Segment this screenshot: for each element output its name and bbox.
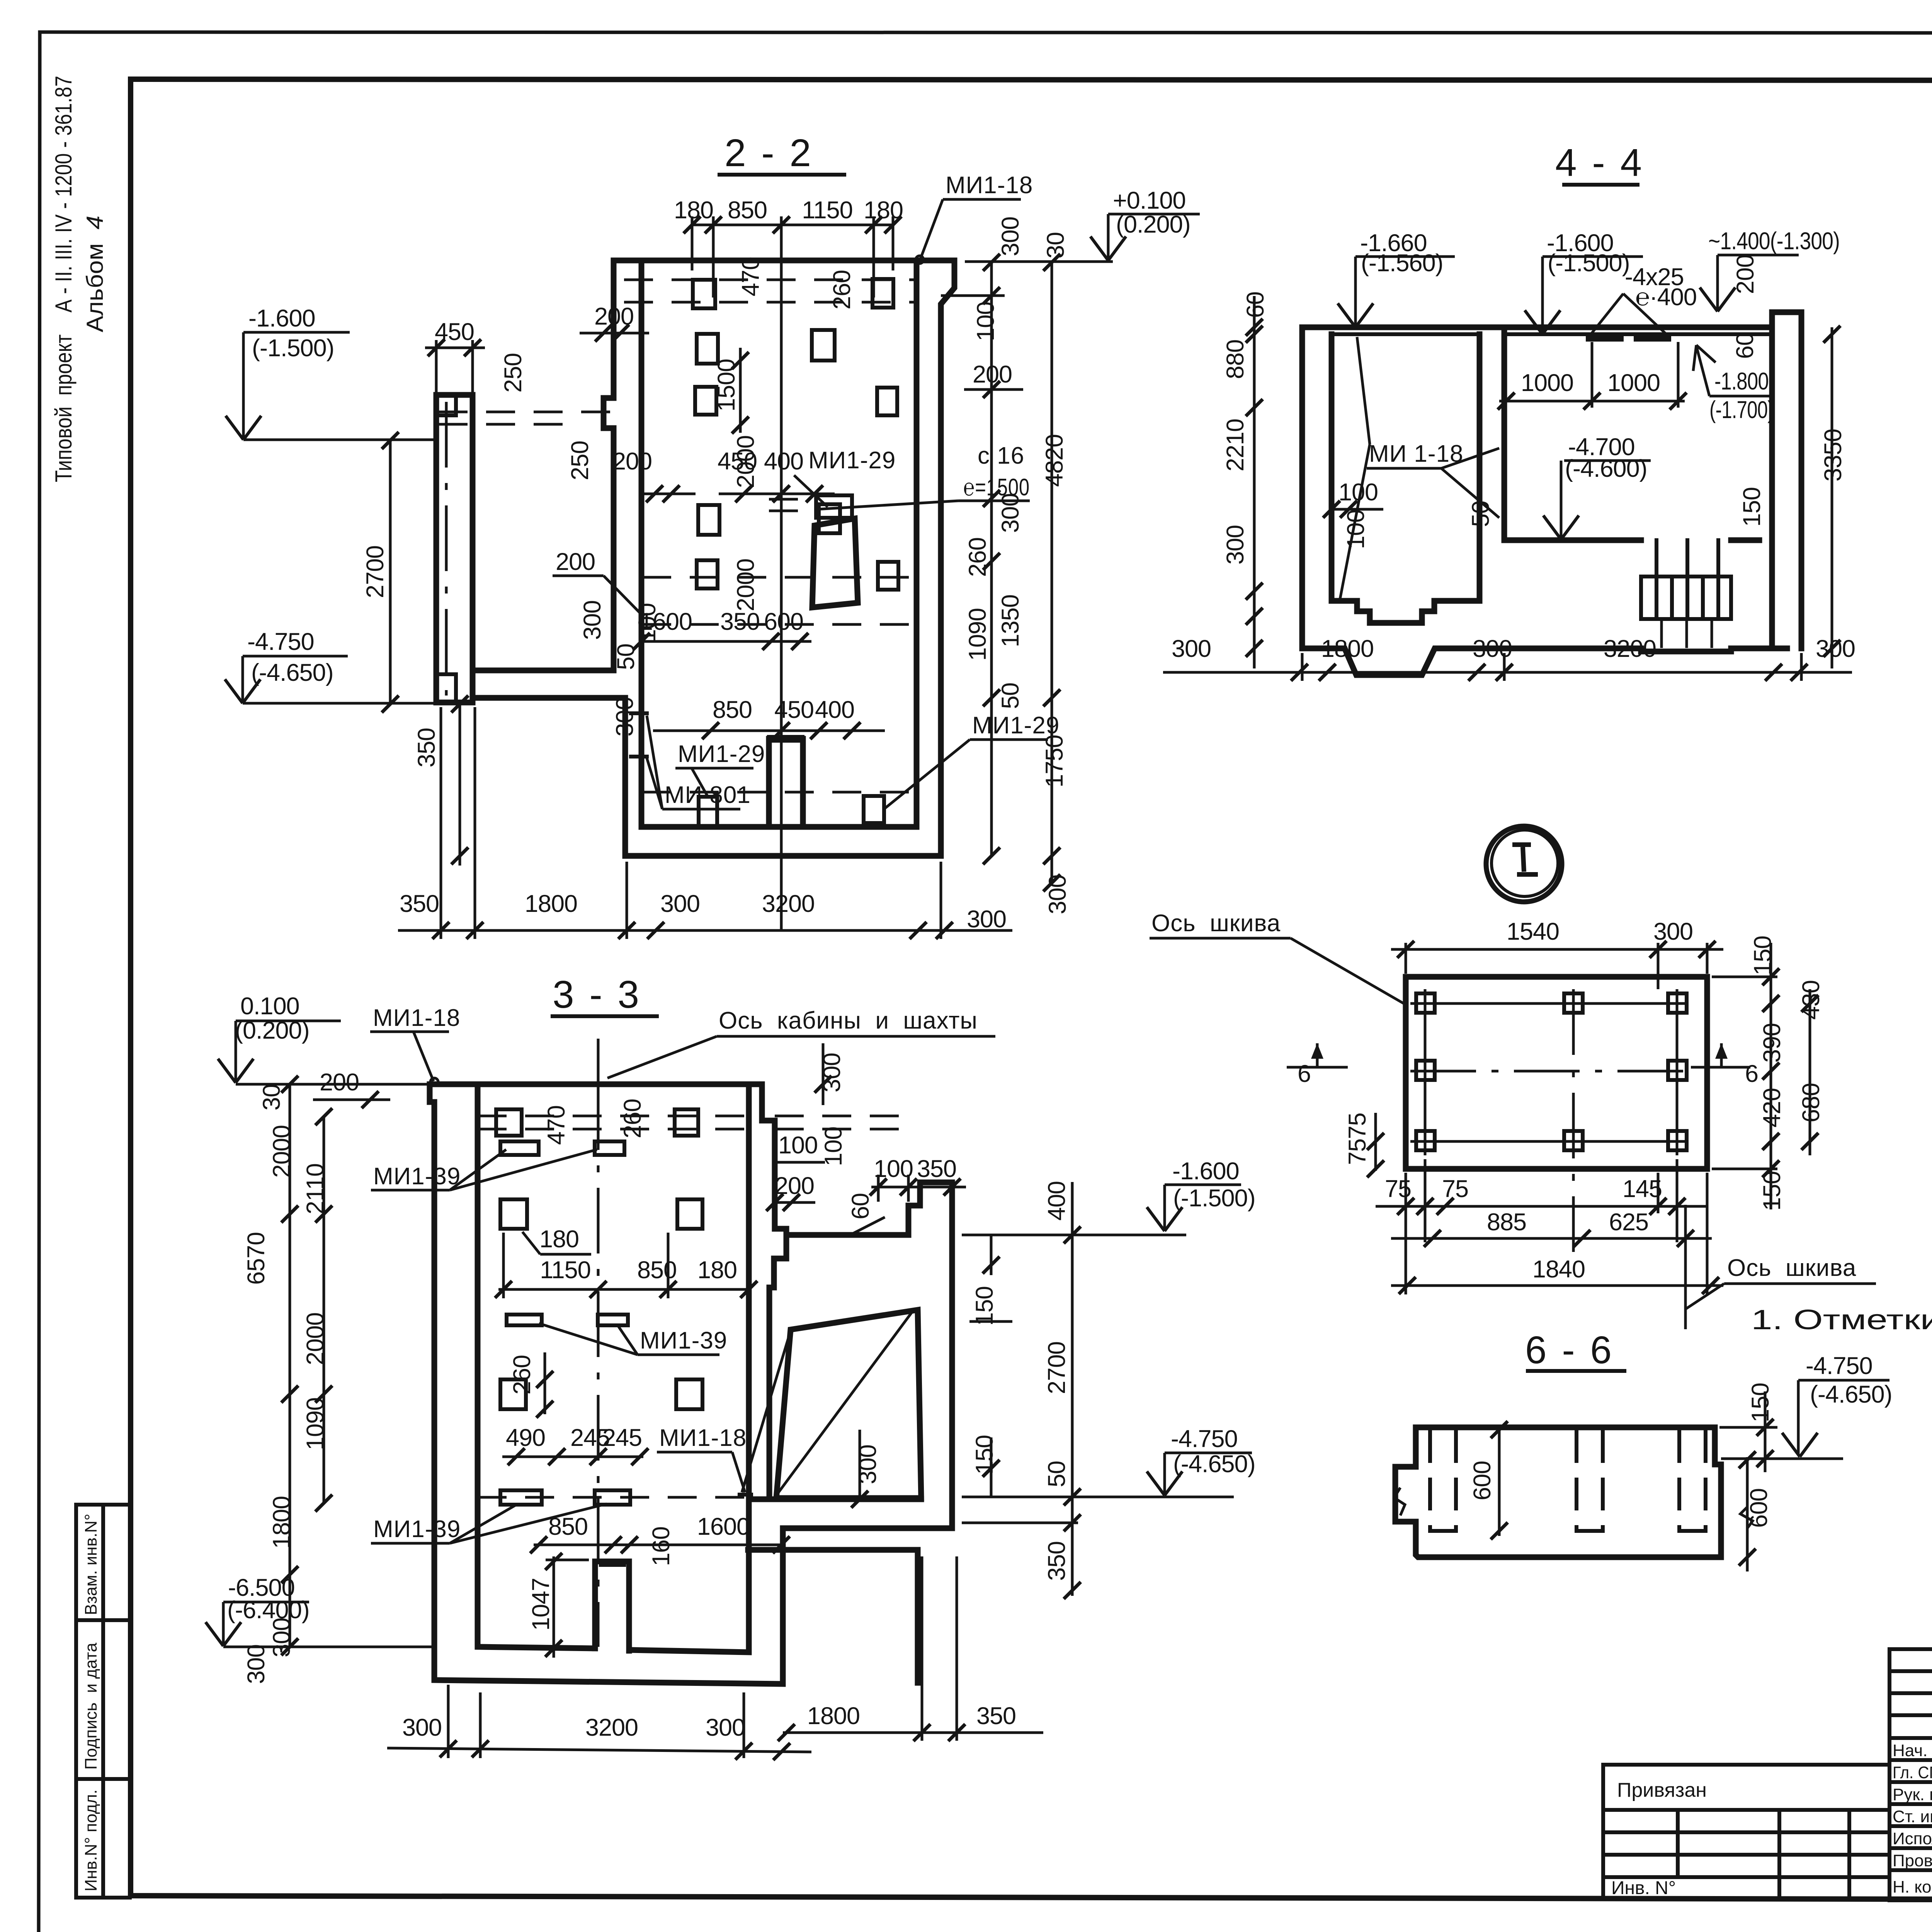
svg-text:МИ1-29: МИ1-29	[972, 712, 1060, 739]
svg-text:150: 150	[971, 1435, 998, 1475]
svg-text:300: 300	[660, 890, 700, 917]
mid dashed lines	[642, 576, 916, 579]
svg-text:60: 60	[847, 1193, 874, 1219]
svg-text:1047: 1047	[527, 1578, 554, 1631]
svg-text:1090: 1090	[302, 1398, 329, 1450]
svg-text:МИ1-39: МИ1-39	[640, 1327, 727, 1354]
svg-text:300: 300	[243, 1645, 270, 1684]
svg-text:850: 850	[637, 1257, 677, 1284]
right chain A	[941, 260, 1023, 856]
svg-text:300: 300	[402, 1714, 442, 1741]
svg-text:200: 200	[320, 1069, 359, 1096]
svg-text:300: 300	[268, 1618, 295, 1657]
svg-text:6570: 6570	[243, 1232, 270, 1285]
svg-text:850: 850	[548, 1513, 588, 1540]
svg-text:100: 100	[778, 1132, 818, 1159]
svg-text:470: 470	[543, 1105, 570, 1145]
top dimension row	[692, 216, 893, 930]
svg-text:6: 6	[1745, 1060, 1758, 1087]
svg-text:(-1.700): (-1.700)	[1709, 396, 1774, 423]
svg-text:МИ1-29: МИ1-29	[678, 741, 765, 767]
svg-text:Ст. инж.: Ст. инж.	[1893, 1807, 1932, 1826]
svg-text:1840: 1840	[1532, 1256, 1585, 1283]
right room floor	[1504, 537, 1759, 543]
pedestal 3-3	[595, 1561, 629, 1651]
comb block	[1641, 540, 1731, 619]
svg-text:3200: 3200	[762, 890, 815, 917]
plan outline	[1406, 977, 1707, 1169]
svg-text:300: 300	[997, 493, 1024, 533]
svg-text:160: 160	[648, 1527, 675, 1566]
fragment mark circle I	[1486, 826, 1562, 902]
bottom slab	[1302, 648, 1787, 675]
bottom centre pedestal	[769, 739, 803, 827]
svg-text:6 - 6: 6 - 6	[1525, 1328, 1614, 1372]
svg-text:-1.600: -1.600	[248, 305, 315, 332]
svg-text:625: 625	[1609, 1209, 1648, 1236]
svg-text:-1.600: -1.600	[1172, 1158, 1239, 1185]
svg-text:(-1.500): (-1.500)	[1548, 250, 1630, 277]
svg-text:350: 350	[400, 890, 439, 917]
svg-text:600: 600	[1745, 1488, 1772, 1528]
svg-text:145: 145	[1622, 1175, 1662, 1202]
svg-text:1600: 1600	[697, 1513, 750, 1540]
svg-text:180: 180	[674, 197, 713, 224]
svg-text:(-4.650): (-4.650)	[251, 659, 333, 686]
svg-text:3200: 3200	[1604, 635, 1656, 662]
svg-text:880: 880	[1222, 340, 1249, 379]
svg-text:~1.400(-1.300): ~1.400(-1.300)	[1708, 228, 1840, 255]
svg-text:1750: 1750	[1041, 735, 1068, 787]
svg-text:200: 200	[973, 361, 1012, 388]
svg-text:100: 100	[972, 302, 999, 341]
bottom-left vertical stamp table	[76, 1505, 130, 1898]
svg-text:1150: 1150	[802, 197, 852, 224]
svg-text:390: 390	[1759, 1023, 1786, 1063]
svg-text:150: 150	[971, 1286, 998, 1326]
svg-text:1000: 1000	[1607, 369, 1660, 396]
grid axes	[1410, 989, 1685, 1155]
svg-text:250: 250	[500, 353, 527, 393]
svg-text:(0.200): (0.200)	[235, 1017, 310, 1044]
bottom dim row right	[783, 1731, 1043, 1734]
svg-text:300: 300	[706, 1714, 745, 1741]
svg-text:180: 180	[864, 197, 903, 224]
svg-text:430: 430	[1798, 980, 1825, 1020]
embedded plates	[693, 279, 898, 826]
svg-text:℮·400: ℮·400	[1635, 284, 1697, 311]
svg-text:2000: 2000	[732, 559, 759, 611]
svg-text:1600: 1600	[639, 608, 692, 635]
svg-text:75: 75	[1442, 1175, 1468, 1202]
main outline left part	[430, 1084, 952, 1684]
svg-text:100: 100	[1338, 479, 1378, 506]
outline 6-6	[1416, 1427, 1721, 1557]
main outline 2-2	[473, 260, 954, 856]
svg-text:Ось кабины и шахты: Ось кабины и шахты	[719, 1007, 978, 1034]
svg-text:420: 420	[1759, 1088, 1786, 1128]
svg-text:400: 400	[764, 448, 803, 475]
svg-text:350: 350	[976, 1702, 1016, 1730]
svg-text:1150: 1150	[540, 1257, 590, 1284]
svg-text:850: 850	[713, 696, 752, 723]
left room floor with sump	[1332, 601, 1480, 623]
svg-text:300: 300	[1044, 875, 1071, 914]
svg-text:0.100: 0.100	[240, 993, 299, 1020]
svg-text:50: 50	[1467, 501, 1494, 527]
svg-text:680: 680	[1798, 1083, 1825, 1122]
staff table	[1889, 1649, 1932, 1900]
svg-text:2000: 2000	[302, 1313, 329, 1365]
svg-text:Провер.: Провер.	[1893, 1851, 1932, 1870]
svg-text:(-4.650): (-4.650)	[1173, 1451, 1255, 1478]
svg-text:1. Отметки в скобках даны для: 1. Отметки в скобках даны для классов А-…	[1751, 1304, 1932, 1335]
svg-text:Рук. гр.: Рук. гр.	[1893, 1785, 1932, 1804]
auxiliary table (Привязан)	[1603, 1765, 1889, 1899]
svg-text:Инв. N°: Инв. N°	[1611, 1878, 1676, 1898]
svg-text:2700: 2700	[362, 546, 389, 598]
svg-text:300: 300	[611, 697, 638, 736]
svg-text:Альбом 4: Альбом 4	[82, 216, 108, 332]
anchor squares grid	[1416, 993, 1687, 1150]
embedded plates 4x25 under slab	[1586, 336, 1624, 342]
svg-text:1800: 1800	[268, 1496, 295, 1549]
section 6 cut marks	[1316, 1043, 1319, 1067]
svg-text:180: 180	[539, 1226, 579, 1253]
svg-text:Ось шкива: Ось шкива	[1727, 1255, 1856, 1281]
svg-text:МИ1-39: МИ1-39	[373, 1163, 461, 1190]
svg-text:1800: 1800	[807, 1702, 860, 1730]
svg-text:(-4.600): (-4.600)	[1565, 455, 1647, 482]
comb pit dashed	[1662, 619, 1712, 650]
right chain B	[1051, 262, 1053, 886]
svg-text:300: 300	[1816, 635, 1855, 662]
svg-text:75: 75	[1344, 1139, 1371, 1165]
pit inner walls 3-3	[478, 1084, 749, 1652]
svg-text:150: 150	[1747, 1383, 1774, 1422]
centre wall	[1480, 327, 1504, 601]
svg-text:(-1.500): (-1.500)	[1173, 1185, 1255, 1212]
svg-text:300: 300	[579, 600, 606, 640]
svg-text:300: 300	[1653, 918, 1693, 945]
svg-text:200: 200	[556, 548, 595, 575]
svg-text:300: 300	[1473, 635, 1512, 662]
svg-text:350: 350	[1043, 1541, 1070, 1581]
svg-text:300: 300	[1222, 525, 1249, 565]
svg-text:2000: 2000	[732, 435, 759, 488]
svg-text:3 - 3: 3 - 3	[553, 973, 641, 1016]
svg-text:75: 75	[1385, 1175, 1411, 1202]
lower right ledge	[748, 1547, 918, 1553]
svg-text:200: 200	[612, 448, 652, 475]
svg-text:(-1.560): (-1.560)	[1361, 250, 1443, 277]
svg-text:Нач. отд.: Нач. отд.	[1893, 1741, 1932, 1760]
svg-text:МИ1-18: МИ1-18	[946, 172, 1033, 199]
bottom dim row 4-4	[1163, 671, 1852, 674]
svg-text:470: 470	[737, 257, 764, 296]
svg-text:6: 6	[1298, 1060, 1311, 1087]
centre axis	[597, 1039, 600, 1084]
left wall column outline	[436, 395, 473, 702]
left chain 3-3	[289, 1084, 291, 1647]
top dashed lines 3-3	[478, 1115, 749, 1117]
right chain 3-3	[1071, 1182, 1074, 1596]
svg-text:75: 75	[1344, 1113, 1371, 1139]
svg-text:150: 150	[1749, 936, 1776, 975]
left chain 4-4	[1253, 296, 1256, 668]
svg-text:450: 450	[774, 696, 814, 723]
svg-text:Ось шкива: Ось шкива	[1151, 910, 1281, 937]
svg-text:300: 300	[967, 906, 1006, 933]
bottom dashed line	[642, 791, 916, 794]
svg-text:100: 100	[1342, 510, 1369, 549]
svg-text:-4.750: -4.750	[247, 628, 314, 655]
right wall upper piece	[762, 1084, 786, 1235]
svg-text:1800: 1800	[1321, 635, 1374, 662]
staff roles	[1893, 1741, 1932, 1896]
svg-text:300: 300	[1172, 635, 1211, 662]
svg-text:МИ1-18: МИ1-18	[373, 1005, 460, 1031]
top slab	[1302, 325, 1772, 330]
svg-text:Взам. инв.N°: Взам. инв.N°	[82, 1514, 100, 1615]
svg-text:150: 150	[1759, 1171, 1786, 1211]
right wall	[1772, 312, 1801, 648]
svg-text:МИ 1-18: МИ 1-18	[1369, 440, 1464, 467]
svg-text:400: 400	[815, 696, 854, 723]
svg-text:490: 490	[506, 1424, 545, 1451]
svg-text:260: 260	[964, 537, 991, 577]
svg-text:2 - 2: 2 - 2	[724, 131, 813, 175]
svg-text:400: 400	[1043, 1181, 1070, 1221]
bottom dimension row	[398, 929, 1012, 932]
svg-text:МИ 801: МИ 801	[665, 782, 751, 808]
svg-text:350: 350	[413, 728, 440, 767]
svg-text:(-4.650): (-4.650)	[1810, 1381, 1892, 1408]
svg-text:885: 885	[1487, 1209, 1526, 1236]
svg-text:50: 50	[997, 683, 1024, 709]
svg-text:Исполн.: Исполн.	[1893, 1829, 1932, 1848]
svg-text:МИ1-39: МИ1-39	[373, 1516, 461, 1543]
outline left wall	[1302, 327, 1332, 648]
left wall axis dash-dot	[445, 402, 448, 696]
dashed channels	[1430, 1432, 1706, 1531]
svg-text:1350: 1350	[997, 595, 1024, 647]
svg-text:850: 850	[728, 197, 767, 224]
svg-text:200: 200	[1732, 255, 1759, 294]
svg-text:250: 250	[566, 441, 594, 480]
bottom dim row left	[387, 1748, 811, 1752]
svg-text:1540: 1540	[1507, 918, 1559, 945]
svg-text:МИ1-18: МИ1-18	[659, 1425, 747, 1451]
svg-text:-4.750: -4.750	[1171, 1425, 1238, 1452]
svg-text:260: 260	[619, 1099, 646, 1138]
svg-text:Н. контр.: Н. контр.	[1893, 1878, 1932, 1896]
svg-text:Гл. СПЕЦ: Гл. СПЕЦ	[1893, 1763, 1932, 1782]
svg-text:260: 260	[828, 270, 855, 310]
svg-text:50: 50	[1043, 1461, 1070, 1487]
svg-text:Инв.N° подл.: Инв.N° подл.	[82, 1789, 100, 1891]
plates row1	[496, 1109, 702, 1505]
svg-text:(0.200): (0.200)	[1116, 211, 1190, 238]
svg-text:1000: 1000	[1521, 369, 1573, 396]
svg-text:-1.800: -1.800	[1714, 368, 1769, 395]
quad block	[776, 1310, 921, 1498]
svg-text:-4.750: -4.750	[1806, 1352, 1872, 1379]
svg-text:+0.100: +0.100	[1113, 187, 1185, 214]
svg-text:350: 350	[917, 1155, 956, 1182]
svg-text:2000: 2000	[268, 1125, 295, 1178]
svg-text:3200: 3200	[585, 1714, 638, 1741]
svg-text:180: 180	[697, 1257, 737, 1284]
svg-text:260: 260	[509, 1355, 536, 1395]
svg-text:Привязан: Привязан	[1617, 1779, 1707, 1801]
svg-text:2700: 2700	[1043, 1342, 1070, 1394]
svg-text:600: 600	[1469, 1461, 1496, 1500]
svg-text:1800: 1800	[525, 890, 577, 917]
svg-text:(-1.500): (-1.500)	[252, 335, 334, 362]
svg-text:4820: 4820	[1041, 434, 1068, 487]
right tapered block	[812, 519, 858, 607]
ledge below quad	[749, 1497, 921, 1502]
svg-text:30: 30	[1042, 232, 1069, 259]
svg-text:100: 100	[820, 1127, 847, 1166]
svg-text:2110: 2110	[302, 1163, 329, 1214]
svg-text:30: 30	[258, 1084, 285, 1111]
svg-text:4 - 4: 4 - 4	[1555, 141, 1644, 184]
svg-text:60: 60	[1731, 333, 1759, 359]
svg-text:1090: 1090	[964, 608, 991, 661]
svg-text:150: 150	[1738, 487, 1765, 527]
svg-text:350: 350	[720, 608, 760, 635]
left room hidden slab dashed	[439, 411, 611, 413]
right chain plan	[1770, 943, 1772, 1209]
top slab dashed lines	[624, 279, 917, 281]
svg-text:МИ1-29: МИ1-29	[808, 447, 896, 474]
svg-text:с 16: с 16	[978, 442, 1024, 469]
svg-text:Типовой проект А - II. III: Типовой проект А - II. III. IV - 1200 - …	[51, 76, 77, 482]
svg-text:2210: 2210	[1222, 419, 1249, 471]
svg-text:245: 245	[602, 1424, 642, 1451]
svg-text:600: 600	[764, 608, 803, 635]
pit inner walls	[641, 260, 917, 827]
svg-text:300: 300	[997, 217, 1024, 256]
svg-text:Подпись и дата: Подпись и дата	[82, 1643, 100, 1770]
